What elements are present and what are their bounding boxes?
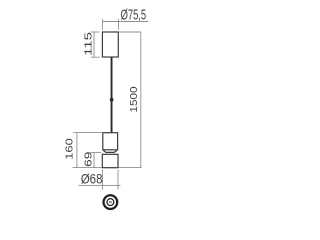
svg-text:69: 69 xyxy=(83,152,95,167)
extension line bottom of 160 xyxy=(73,167,102,169)
bottom view bullseye center circle xyxy=(110,201,112,203)
lamp body lower cylinder xyxy=(102,154,118,167)
tick bottom of 115 xyxy=(91,56,100,58)
cable gripper bulge xyxy=(110,98,114,102)
svg-text:160: 160 xyxy=(63,138,75,160)
dimension line 160 xyxy=(76,133,78,168)
bottom view bullseye middle ring xyxy=(107,199,114,206)
witness line left of Ø75,5 xyxy=(101,19,103,30)
svg-text:Ø68: Ø68 xyxy=(81,171,103,187)
witness line right of Ø68 xyxy=(117,170,119,190)
tick top of 115 xyxy=(91,31,100,33)
svg-text:Ø75,5: Ø75,5 xyxy=(121,7,147,24)
extension line top of 160 xyxy=(73,132,102,134)
extension line bottom right of 1500 xyxy=(118,166,141,168)
dimension line Ø68 xyxy=(79,184,121,186)
bottom view bullseye outer ring xyxy=(104,195,118,209)
svg-text:115: 115 xyxy=(82,32,94,56)
witness line left of Ø68 xyxy=(102,170,104,190)
dimension line 69 xyxy=(93,152,95,167)
extension line top of 1500 xyxy=(118,31,141,33)
joint neck between body sections xyxy=(103,151,117,153)
dimension line 115 xyxy=(93,32,95,57)
suspension cable xyxy=(111,57,113,133)
lamp body upper cylinder xyxy=(103,133,118,150)
svg-text:1500: 1500 xyxy=(128,86,140,112)
extension line top of 69 xyxy=(90,151,101,153)
dimension line Ø75,5 xyxy=(102,21,148,23)
dimension line 1500 xyxy=(140,32,142,167)
witness line right of Ø75,5 xyxy=(117,19,119,30)
canopy cylinder xyxy=(102,32,118,57)
